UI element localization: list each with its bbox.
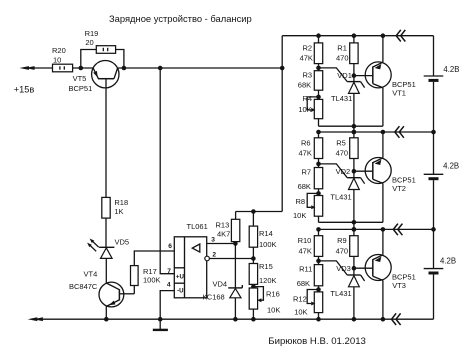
resistor R17 [131, 266, 139, 286]
resistor R3 68K [318, 68, 320, 71]
svg-text:VT5: VT5 [73, 74, 87, 83]
svg-text:1K: 1K [114, 207, 123, 216]
trimmer R8 10K [318, 193, 320, 195]
svg-text:TL431: TL431 [330, 289, 351, 298]
svg-text:10K: 10K [298, 105, 311, 114]
node pin4 ground junction [158, 317, 163, 322]
shunt regulator VD3 TL431 [353, 268, 355, 275]
wire divider feed to R13 R14 [236, 211, 283, 213]
svg-text:100K: 100K [143, 276, 161, 285]
node R16 to rail [251, 317, 256, 322]
connector X1 [396, 30, 401, 42]
wire block1 top rail [318, 36, 320, 43]
node R9 base drive [352, 266, 357, 271]
svg-text:VD3: VD3 [336, 264, 351, 273]
svg-text:68K: 68K [298, 81, 311, 90]
svg-text:TL431: TL431 [330, 192, 351, 201]
svg-text:VD1: VD1 [337, 71, 352, 80]
node R10 R11 reference tap [316, 259, 321, 264]
resistor R13 [235, 212, 237, 220]
transistor VT2 BCP51 [365, 158, 391, 184]
transistor VT1 BCP51 [365, 62, 391, 88]
svg-text:BC847C: BC847C [69, 282, 98, 291]
LED VD5 emission arrows [92, 240, 99, 247]
wire +U supply line to op-amp pin 7 [160, 68, 174, 274]
svg-text:R8: R8 [296, 197, 306, 206]
resistor R5 470 [353, 132, 355, 138]
svg-text:VT2: VT2 [392, 184, 406, 193]
node R6 R7 reference tap [316, 162, 321, 167]
svg-text:+15в: +15в [14, 84, 35, 94]
svg-text:VD2: VD2 [336, 167, 351, 176]
svg-text:4: 4 [167, 282, 171, 289]
svg-text:TL061: TL061 [187, 222, 208, 231]
svg-text:Бирюков Н.В. 01.2013: Бирюков Н.В. 01.2013 [268, 336, 366, 347]
wire riser to top rail and down to divider feed [281, 36, 283, 212]
svg-text:47K: 47K [299, 247, 312, 256]
svg-text:R16: R16 [266, 290, 280, 299]
wire block2 top rail [319, 131, 434, 133]
node main rail to battery stack corner [280, 66, 285, 71]
ground symbol [159, 319, 161, 329]
node +U supply tap [158, 66, 163, 71]
wire rail 3 and connector X3 [393, 224, 398, 236]
svg-text:R9: R9 [337, 236, 347, 245]
LED VD5 [99, 246, 114, 248]
transistor VT4 BC847C [99, 282, 124, 307]
svg-text:VT4: VT4 [84, 269, 98, 278]
svg-text:R13: R13 [216, 221, 230, 230]
wire corner to battery GB1 [433, 36, 435, 76]
node VT5 collector junction [122, 66, 127, 71]
node VT4 emitter to rail [104, 317, 109, 322]
svg-text:КС168: КС168 [203, 293, 225, 302]
wire R18 to VD5 [105, 218, 107, 247]
svg-text:10K: 10K [294, 307, 307, 316]
resistor R2 47K [314, 43, 322, 64]
node R3 R4 junction [316, 95, 321, 100]
wire rail 2 and connector X2 [395, 126, 400, 138]
resistor R7 68K [318, 164, 320, 168]
node VD4 to rail [233, 317, 238, 322]
battery GB1 4.2V [424, 75, 444, 77]
svg-text:R3: R3 [303, 71, 313, 80]
svg-text:R7: R7 [302, 168, 312, 177]
node reference pin3 [233, 241, 238, 246]
resistor R19 [81, 50, 97, 69]
transistor VT3 BCP51 [365, 255, 391, 281]
svg-text:TL431: TL431 [331, 94, 352, 103]
wire main rail to the right [118, 67, 283, 69]
connector X4 [392, 313, 397, 325]
svg-text:7: 7 [167, 268, 171, 275]
svg-text:R1: R1 [337, 43, 347, 52]
svg-text:100K: 100K [259, 240, 277, 249]
op-amp U1 TL061 [174, 237, 206, 298]
trimmer R4 10K [318, 97, 320, 100]
svg-text:VD5: VD5 [115, 238, 130, 247]
svg-text:R20: R20 [52, 46, 66, 55]
svg-text:-U: -U [177, 288, 184, 295]
resistor R10 47K [314, 236, 322, 257]
svg-text:R11: R11 [299, 265, 312, 274]
svg-text:+U: +U [176, 274, 185, 281]
zener VD4 KC168 [234, 244, 236, 288]
node R1 base drive [352, 73, 357, 78]
wire pin 2 feedback [209, 258, 253, 260]
wire -U pin 4 to ground rail [160, 291, 174, 320]
wire R4 bottom jog to TL431 anode and VT collector [318, 119, 320, 127]
wire R12 bottom to rail [318, 313, 320, 320]
node R5 base drive [352, 169, 357, 174]
wire block3 top rail [319, 228, 434, 230]
svg-text:VT1: VT1 [392, 88, 406, 97]
svg-text:120K: 120K [259, 276, 277, 285]
svg-text:68K: 68K [297, 279, 310, 288]
svg-text:R12: R12 [293, 294, 307, 303]
svg-text:6: 6 [168, 243, 172, 250]
svg-text:Зарядное устройство - балансир: Зарядное устройство - балансир [109, 13, 252, 24]
op-amp output circle pin 2 [205, 256, 210, 261]
resistor R11 68K [318, 261, 320, 265]
svg-text:2: 2 [212, 251, 216, 258]
svg-text:470: 470 [336, 247, 349, 256]
svg-text:470: 470 [336, 54, 349, 63]
svg-text:BCP51: BCP51 [69, 84, 93, 93]
resistor R18 [102, 197, 110, 218]
svg-text:4.2В: 4.2В [440, 257, 456, 266]
wire pin 3 to reference node [207, 243, 236, 245]
svg-text:10K: 10K [267, 305, 280, 314]
svg-text:R4: R4 [303, 94, 313, 103]
wire R20 to VT5 emitter node [73, 67, 94, 69]
svg-text:4.2В: 4.2В [443, 162, 459, 171]
battery GB2 4.2V [424, 173, 444, 175]
node R7 R8 junction [316, 191, 321, 196]
svg-text:20: 20 [85, 38, 93, 47]
svg-text:R2: R2 [303, 43, 313, 52]
svg-text:4.2В: 4.2В [443, 65, 459, 74]
svg-text:4K7: 4K7 [217, 230, 230, 239]
resistor R14 [251, 209, 256, 214]
svg-text:R6: R6 [301, 138, 311, 147]
resistor R9 470 [353, 229, 355, 235]
svg-text:R14: R14 [259, 229, 273, 238]
node R11 R12 junction [316, 287, 321, 292]
svg-text:R15: R15 [259, 262, 273, 271]
svg-text:68K: 68K [298, 182, 311, 191]
svg-text:R10: R10 [298, 236, 312, 245]
svg-text:10K: 10K [293, 211, 306, 220]
resistor R6 47K [314, 138, 322, 159]
svg-text:3: 3 [211, 236, 215, 243]
wire top rail 1 [282, 35, 433, 37]
svg-text:R5: R5 [336, 138, 346, 147]
svg-text:47K: 47K [300, 54, 313, 63]
transistor VT5 BCP51 [92, 60, 119, 87]
input terminal arrow +15v [19, 66, 29, 70]
svg-text:R18: R18 [114, 198, 128, 207]
node feedback [251, 256, 256, 261]
svg-text:VT3: VT3 [392, 281, 406, 290]
svg-text:47K: 47K [299, 149, 312, 158]
node R2 R3 reference tap [316, 66, 321, 71]
wire R8 bottom jog to TL431 anode and VT collector [318, 216, 320, 222]
bottom rail output [28, 317, 38, 321]
resistor R20 [53, 64, 73, 72]
shunt regulator VD2 TL431 [353, 171, 355, 178]
shunt regulator VD1 TL431 [353, 76, 355, 82]
node R15 R16 junction [251, 284, 256, 289]
svg-text:10: 10 [53, 56, 61, 65]
resistor R1 470 [353, 36, 355, 43]
trimmer R16 [249, 288, 257, 309]
battery GB3 4.2V [424, 268, 444, 270]
svg-text:VD4: VD4 [213, 280, 228, 289]
svg-text:470: 470 [336, 149, 349, 158]
node VT5 emitter junction [79, 66, 84, 71]
resistor R15 [252, 259, 254, 264]
trimmer R12 10K [318, 290, 320, 292]
